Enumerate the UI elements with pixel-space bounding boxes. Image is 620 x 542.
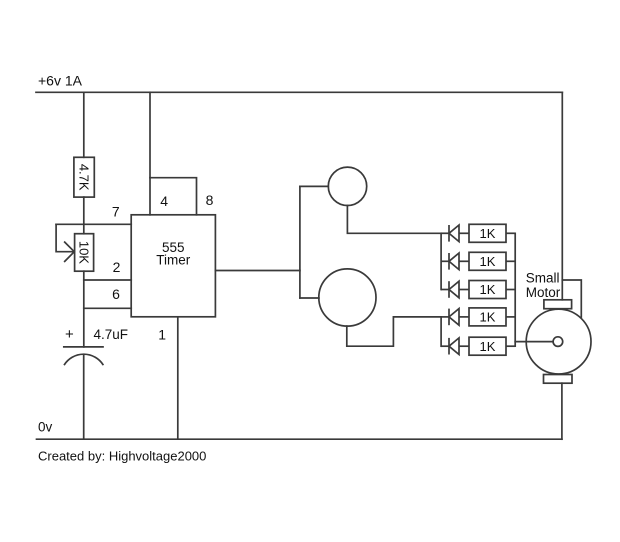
wire small circle output (347, 206, 441, 234)
svg-text:Small: Small (526, 271, 560, 286)
svg-text:1K: 1K (480, 226, 496, 241)
wire bottom 0v rail (37, 438, 562, 440)
wire right resistor bus (514, 233, 516, 346)
svg-text:1: 1 (158, 327, 166, 343)
motor shaft (553, 337, 563, 347)
motor top brush block (544, 300, 572, 309)
svg-text:+: + (65, 326, 74, 343)
wire pin 1 (177, 317, 179, 439)
wire pin 7 (56, 223, 131, 225)
svg-text:4.7uF: 4.7uF (94, 327, 129, 342)
svg-text:10K: 10K (77, 241, 92, 264)
resistor R6 1K (469, 337, 515, 355)
node circle big (319, 269, 376, 326)
svg-text:Timer: Timer (156, 253, 190, 268)
wire pin 2 (84, 279, 131, 281)
potentiometer wiper arrow (65, 242, 75, 261)
wire R1 top lead (83, 92, 85, 157)
resistor R5 1K (469, 308, 515, 326)
resistor R2 1K (469, 224, 515, 242)
svg-text:8: 8 (206, 192, 214, 208)
wire lower diode bus (440, 317, 442, 346)
svg-text:1K: 1K (480, 254, 496, 269)
capacitor C1 bottom curved plate (65, 354, 103, 364)
diode D3 (441, 281, 469, 298)
node circle small (328, 167, 366, 205)
svg-text:Motor: Motor (526, 285, 561, 300)
wire pin 4-8 connector box (150, 178, 197, 215)
wire pin 3 output (215, 270, 300, 272)
wire output vertical branch (299, 186, 301, 298)
diode D5 (441, 338, 469, 355)
wire right rail (561, 92, 563, 299)
wire to big circle (300, 297, 319, 299)
diode D1 (441, 225, 469, 242)
wire pot bottom to capacitor (83, 271, 85, 347)
svg-text:7: 7 (112, 203, 120, 219)
wire motor bottom lead (561, 383, 563, 439)
svg-text:1K: 1K (480, 282, 496, 297)
wire capacitor bottom lead (83, 354, 85, 439)
svg-text:+6v 1A: +6v 1A (38, 73, 83, 89)
diode D4 (441, 309, 469, 326)
resistor R4 1K (469, 281, 515, 299)
svg-text:1K: 1K (480, 339, 496, 354)
wire to small circle (300, 185, 328, 187)
svg-text:6: 6 (112, 286, 120, 302)
svg-text:4: 4 (160, 193, 168, 209)
wire motor top hook (562, 280, 581, 317)
wire pin 6 (84, 307, 131, 309)
svg-text:1K: 1K (480, 310, 496, 325)
diode D2 (441, 253, 469, 270)
svg-text:0v: 0v (38, 420, 53, 435)
motor bottom brush block (544, 375, 573, 384)
capacitor C1 4.7uF top plate (64, 346, 103, 348)
wire R1 to pot (83, 197, 85, 234)
wire motor feed (515, 341, 553, 343)
wire pot wiper to loop (56, 224, 74, 251)
op-amp U1 555 timer body (131, 215, 215, 317)
svg-text:Created by: Highvoltage2000: Created by: Highvoltage2000 (38, 449, 206, 464)
resistor R3 1K (469, 252, 515, 270)
motor M1 body (526, 309, 591, 374)
wire upper diode bus (440, 233, 442, 289)
svg-text:2: 2 (113, 259, 121, 275)
svg-text:4.7K: 4.7K (77, 164, 92, 191)
wire pin 4-8 supply drop (149, 92, 151, 215)
wire big circle output (347, 317, 441, 346)
potentiometer 10K body (75, 234, 94, 272)
resistor 4.7K (74, 157, 94, 197)
wire top +6v rail (36, 91, 562, 93)
